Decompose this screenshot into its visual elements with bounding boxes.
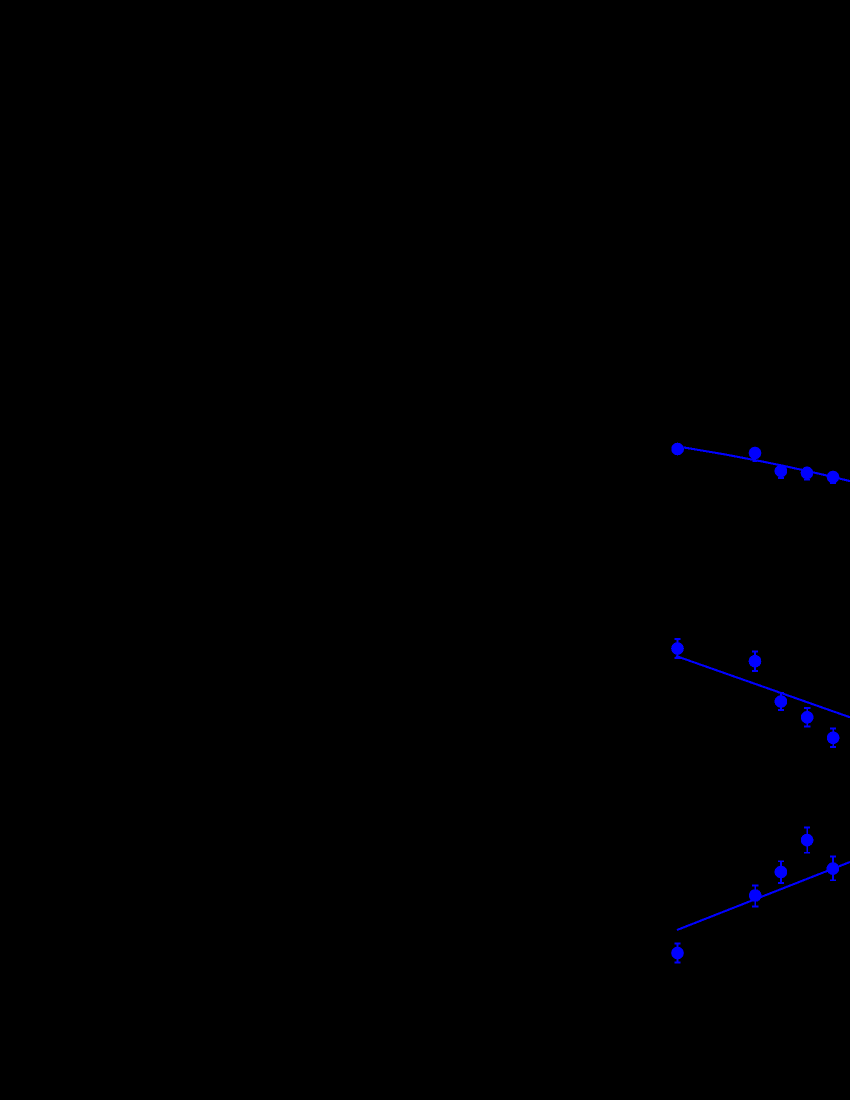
err B4: [804, 828, 810, 853]
point T3: [775, 465, 788, 478]
err M5: [830, 729, 836, 748]
fit line bottom panel: [677, 862, 850, 930]
fit line middle panel: [676, 656, 850, 717]
err T3: [778, 466, 784, 478]
error bars: [674, 444, 836, 962]
point T1: [671, 443, 684, 456]
point M4: [801, 711, 814, 724]
data markers: [671, 443, 839, 960]
point B2: [749, 889, 762, 902]
point M2: [749, 655, 762, 668]
err T1: [677, 444, 679, 454]
point T5: [827, 471, 840, 484]
err T2: [752, 448, 757, 461]
point M3: [775, 695, 788, 708]
point B5: [827, 862, 840, 875]
err M2: [752, 652, 758, 671]
err T5: [830, 471, 836, 483]
err T4: [804, 467, 810, 480]
point M5: [827, 732, 840, 745]
err B5: [830, 857, 836, 881]
err M1: [674, 639, 680, 658]
err B3: [778, 861, 784, 883]
err M4: [804, 708, 810, 727]
point M1: [671, 642, 684, 655]
point B4: [801, 834, 814, 847]
point B3: [775, 866, 788, 879]
fit line top panel: [684, 448, 850, 482]
err M3: [778, 693, 784, 710]
err B2: [752, 885, 758, 906]
err B1: [674, 944, 680, 963]
point T4: [801, 467, 814, 480]
point B1: [671, 947, 684, 960]
point T2: [749, 447, 762, 460]
